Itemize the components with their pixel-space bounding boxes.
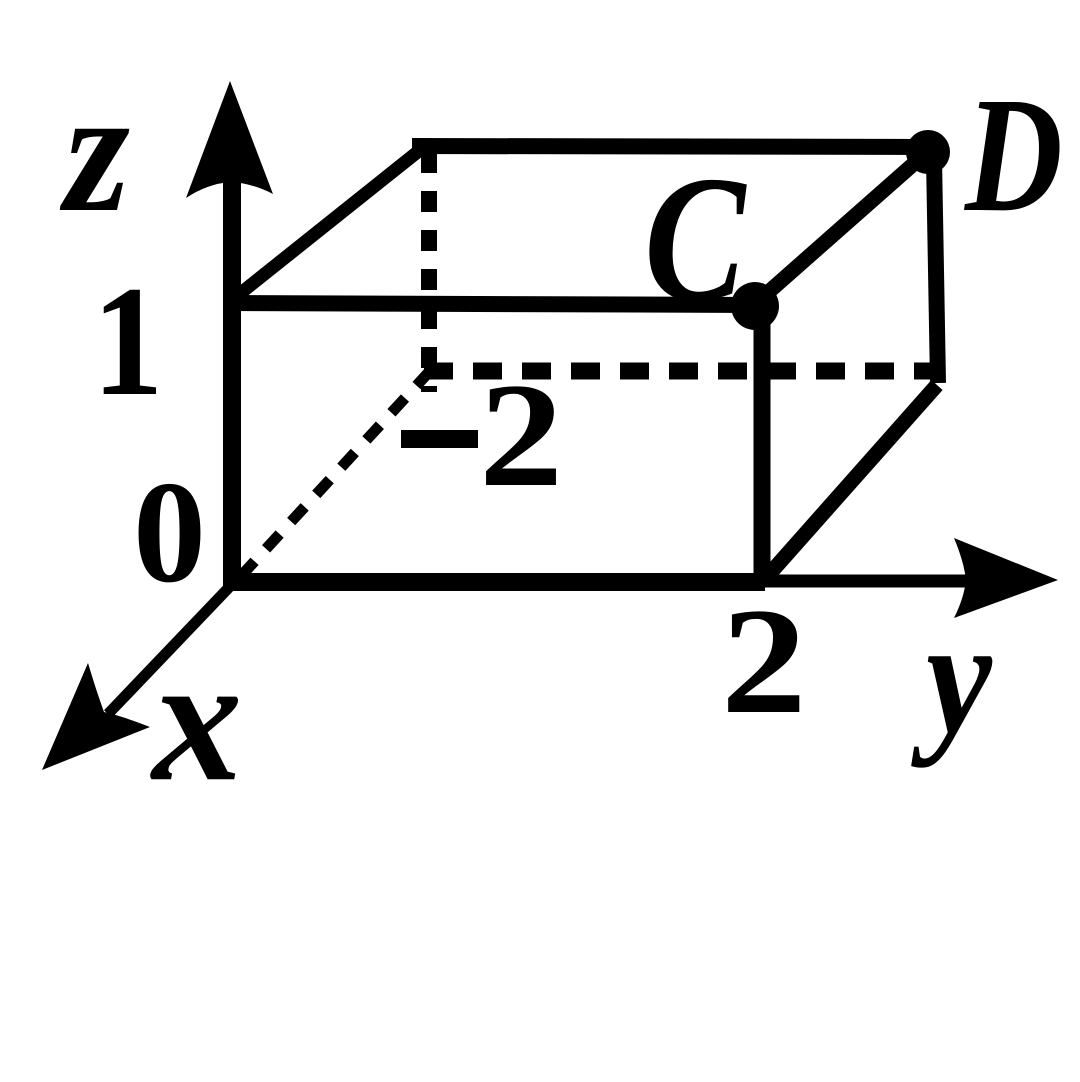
back right edge [934, 158, 938, 383]
label -2 minus sign [401, 430, 478, 448]
svg-text:x: x [149, 619, 242, 818]
z-axis arrowhead [186, 81, 273, 198]
x-axis shaft [108, 578, 238, 714]
dashed back bottom edge [424, 363, 932, 380]
svg-text:D: D [963, 63, 1063, 246]
svg-text:2: 2 [721, 578, 807, 746]
svg-text:C: C [644, 140, 747, 339]
dashed back left vertical edge [421, 152, 437, 392]
point C dot [731, 282, 779, 330]
x-axis arrowhead [42, 663, 150, 770]
dashed diagonal origin to back bottom left [241, 372, 429, 576]
front right edge [754, 304, 771, 580]
z-axis shaft [223, 155, 241, 589]
front top edge [224, 303, 757, 305]
top back edge [412, 146, 925, 147]
svg-text:0: 0 [133, 451, 206, 613]
svg-text:z: z [60, 53, 130, 249]
y-axis arrowhead [954, 538, 1058, 618]
front bottom edge of box (thicker overlay) [230, 573, 765, 591]
point D dot [906, 130, 950, 174]
edge C to D [756, 153, 926, 303]
right face bottom slanted edge [765, 385, 937, 579]
svg-text:2: 2 [479, 353, 563, 518]
top left slanted edge [232, 150, 420, 300]
y-axis line (also front bottom edge of box) [232, 575, 1008, 588]
svg-text:1: 1 [92, 253, 163, 429]
